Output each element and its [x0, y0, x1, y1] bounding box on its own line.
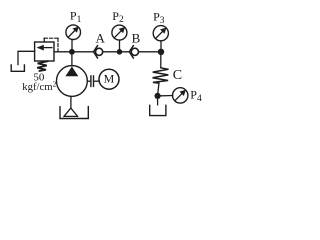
wire: pump suction stem: [70, 96, 72, 108]
wire: stem into tank T3: [157, 96, 159, 105]
gauge P2: [112, 25, 127, 52]
relief valve V1 body: [35, 42, 54, 61]
gauge P4: [173, 88, 188, 103]
electric motor M circle: [99, 69, 119, 89]
gauge P3: [153, 26, 168, 52]
svg-text:M: M: [104, 71, 115, 85]
wire: main pressure line from relief valve to check valve A: [54, 51, 94, 53]
gauge P1: [66, 25, 81, 52]
svg-text:A: A: [96, 30, 106, 45]
wire: right branch vertical line down to throttle C: [160, 52, 162, 68]
pump (hydraulic pump circle): [57, 66, 88, 97]
tank T3 (load drain reservoir): [150, 105, 166, 115]
tank T2 (main reservoir under pump): [60, 107, 88, 119]
wire: horizontal line to gauge P4: [158, 95, 173, 97]
shaft coupling between pump and motor: [87, 76, 99, 87]
node: junction P2 on main line: [117, 49, 123, 55]
tank T1 (relief valve drain reservoir): [11, 65, 24, 71]
wire: pump outlet stem: [71, 52, 73, 66]
svg-text:B: B: [132, 30, 141, 45]
relief valve V1 internal flow arrow: [37, 45, 52, 51]
wire: line from throttle C down to bottom junction: [158, 83, 159, 96]
wire: line between check valve A and check valve B: [103, 51, 130, 53]
relief valve V1 pilot line (dashed): [44, 38, 58, 51]
wire: line from check valve B to right branch junction: [139, 51, 161, 53]
check valve A: [94, 46, 103, 58]
pump flow direction triangle: [65, 67, 78, 77]
strainer at pump suction: [64, 108, 78, 116]
wire: relief valve drain line to tank T1: [18, 51, 35, 64]
node: bottom junction to P4 and tank: [155, 93, 161, 99]
node: junction pump outlet / P1: [69, 49, 75, 55]
throttle / load valve C (spring zigzag): [153, 68, 169, 83]
relief valve V1 spring: [37, 61, 47, 71]
check valve B: [129, 46, 138, 58]
svg-text:C: C: [173, 68, 182, 83]
svg-text:kgf/cm2: kgf/cm2: [22, 80, 56, 93]
node: junction P3 / right branch: [158, 49, 164, 55]
